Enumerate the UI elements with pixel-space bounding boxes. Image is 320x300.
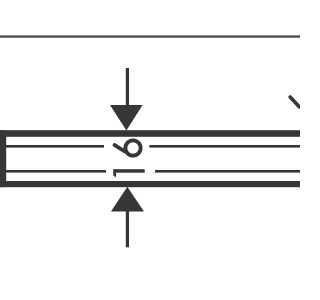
inner line lower right segment bbox=[155, 170, 300, 173]
dimension arrow bottom shaft bbox=[126, 211, 129, 247]
dimension label 16 digit 6 bowl bbox=[125, 140, 140, 155]
dimension label 16 digit 1 stem bbox=[113, 169, 144, 173]
inner line upper left segment bbox=[6, 145, 104, 148]
dimension arrow bottom head bbox=[111, 187, 144, 212]
dimension label 16 digit 1 flag bbox=[113, 169, 116, 177]
dimension arrow top shaft bbox=[126, 68, 129, 106]
profile bottom edge bbox=[0, 181, 300, 187]
profile top edge bbox=[0, 130, 300, 137]
leader line stub top right bbox=[290, 97, 299, 107]
dimension label 16 digit 6 tail bbox=[115, 145, 125, 151]
wall line bbox=[0, 35, 300, 37]
dimension arrow top head bbox=[110, 105, 143, 131]
profile left end cap bbox=[0, 130, 6, 187]
inner line lower left segment bbox=[6, 170, 106, 173]
inner line upper right segment bbox=[149, 145, 300, 148]
